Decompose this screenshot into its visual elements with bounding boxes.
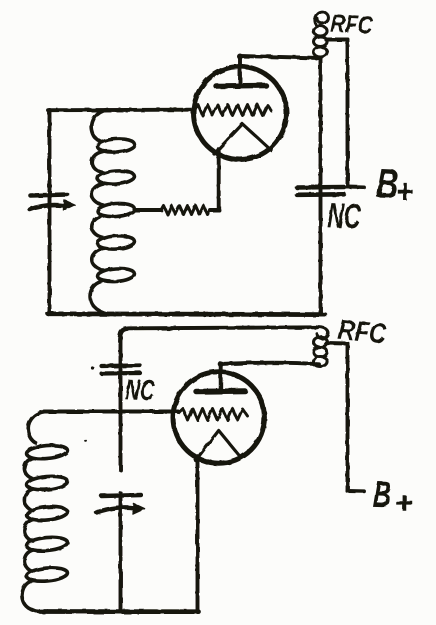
wire: B+ feed vertical (top stage)	[346, 40, 350, 187]
RF choke RFC1	[314, 12, 329, 57]
wire: RFC1 to B+ drop	[326, 38, 348, 42]
label RFC (bottom stage)	[338, 319, 387, 343]
wire: top wire of bottom stage to RFC2	[120, 327, 318, 341]
neutralizing capacitor C2 (NC, top stage)	[297, 187, 344, 195]
wire: grid wire of bottom stage	[44, 410, 178, 414]
variable capacitor C4 (tank tuning, bottom stage)	[97, 495, 145, 514]
wire: B+ terminal stub (top stage)	[348, 185, 364, 189]
wire: B+ feed vertical (bottom stage)	[346, 344, 350, 492]
V1 filament	[214, 124, 272, 154]
wire: tank bottom wire (bottom stage)	[40, 609, 199, 614]
V2 grid zigzag	[179, 409, 248, 421]
inductor L2 (tank coil, bottom stage)	[22, 412, 68, 612]
wire: left vertical wire	[48, 110, 52, 314]
wire: coil tap to resistor	[135, 208, 162, 212]
wire: B+ terminal stub (bottom stage)	[348, 489, 365, 493]
wire: NC branch vertical lower (bottom stage)	[119, 493, 123, 612]
wire: plate node down through NC capacitor to tank bottom	[319, 58, 323, 313]
stray ink dot	[85, 440, 88, 443]
label NC (bottom stage)	[125, 379, 155, 401]
triode V1 envelope	[194, 67, 287, 160]
variable capacitor C1 (tank tuning, top stage)	[30, 195, 75, 211]
wire: V1 plate to RFC1	[240, 56, 321, 58]
inductor L1 (tank coil, top stage)	[90, 110, 135, 314]
wire: tank bottom wire (top stage)	[48, 311, 325, 317]
wire: top tank wire / grid lead (left wire to tube V1 grid)	[48, 108, 193, 112]
triode V2 envelope	[173, 372, 264, 463]
V1 plate lead	[238, 56, 242, 84]
V2 plate lead	[219, 364, 223, 389]
stray ink dot	[91, 367, 94, 370]
RF choke RFC2	[314, 327, 329, 366]
V1 plate bar	[216, 83, 266, 89]
V1 grid zigzag	[194, 105, 272, 116]
wire: RFC2 to B+ drop	[326, 341, 348, 345]
V2 plate bar	[196, 388, 245, 394]
wire: resistor to cathode lead	[210, 208, 219, 212]
node: plate junction of V2	[218, 361, 224, 367]
resistor R1 (grid leak)	[161, 206, 210, 215]
V2 filament	[196, 431, 241, 461]
node: plate junction of V1	[237, 54, 243, 60]
wire: cathode lead of V1	[217, 149, 221, 210]
wire: V2 plate to RFC2	[221, 363, 319, 365]
label B+ (top stage)	[376, 169, 397, 198]
neutralizing capacitor C3 (NC, bottom stage)	[102, 366, 141, 374]
label NC (top stage)	[328, 203, 362, 229]
wire: cathode lead of V2	[196, 458, 200, 612]
wire: NC branch vertical upper (bottom stage)	[119, 337, 123, 470]
label B+ (bottom stage)	[373, 481, 391, 507]
label RFC (top stage)	[330, 14, 373, 34]
